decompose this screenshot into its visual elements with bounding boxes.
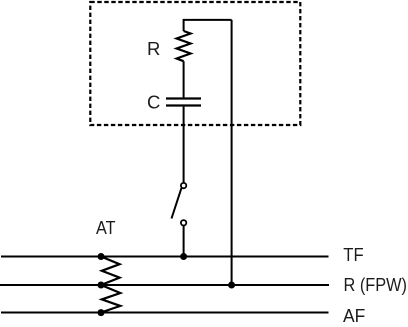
junction dot AT/AF	[98, 309, 105, 316]
junction dot right branch/R (FPW)	[228, 282, 235, 289]
wire switch bottom to TF bus	[183, 226, 185, 257]
capacitor C (two plates)	[166, 99, 201, 106]
switch S (open contact)	[172, 183, 187, 226]
svg-text:R (FPW): R (FPW)	[344, 274, 408, 295]
svg-text:AF: AF	[343, 305, 365, 326]
junction dot AT/R (FPW)	[98, 282, 105, 289]
dashed enclosure box	[90, 2, 300, 125]
svg-text:AT: AT	[96, 217, 116, 238]
junction dot AT/TF	[98, 253, 105, 260]
resistor R (vertical zigzag)	[177, 31, 191, 61]
svg-text:TF: TF	[343, 244, 363, 265]
wire capacitor bottom to switch	[183, 107, 185, 183]
wire resistor bottom to capacitor top	[183, 61, 185, 97]
junction dot switch/TF	[180, 253, 187, 260]
wire top horizontal (R top to right branch)	[184, 20, 232, 31]
wire right branch vertical (down to R (FPW) bus)	[231, 20, 233, 285]
bus line TF	[1, 256, 329, 258]
svg-text:C: C	[147, 91, 160, 112]
resistor between TF and R (FPW)	[101, 257, 120, 286]
bus line AF	[1, 312, 329, 314]
svg-text:R: R	[147, 38, 160, 59]
bus line R (FPW)	[0, 284, 329, 286]
resistor between R (FPW) and AF	[101, 285, 120, 313]
